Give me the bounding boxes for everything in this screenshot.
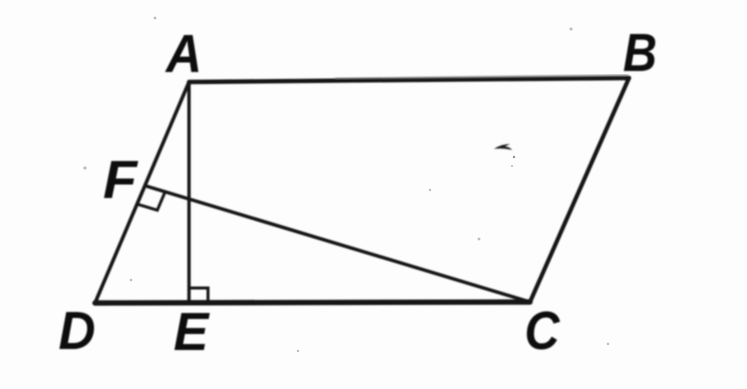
scan noise specks (83, 17, 609, 353)
altitude AE (187, 82, 190, 303)
faint scan smear above side AB (335, 75, 628, 79)
side DA (95, 82, 189, 303)
svg-text:F: F (103, 150, 139, 210)
right angle mark at F (138, 192, 165, 210)
side AB (189, 78, 629, 82)
side BC (530, 78, 629, 302)
svg-text:A: A (164, 24, 202, 84)
side DC (95, 302, 530, 303)
svg-text:B: B (623, 23, 657, 83)
svg-text:E: E (174, 302, 211, 362)
right angle mark at E (190, 288, 208, 302)
stray pen mark artifact (494, 144, 512, 150)
svg-text:C: C (525, 301, 561, 361)
segment FC (146, 186, 530, 302)
svg-text:D: D (59, 301, 96, 361)
